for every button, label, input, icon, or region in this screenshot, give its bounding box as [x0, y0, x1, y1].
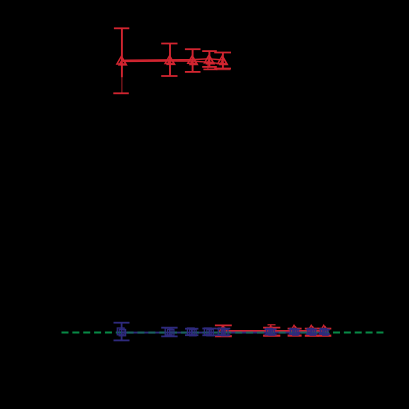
blue errorbar B6 — [270, 329, 272, 334]
blue square marker A7 — [291, 329, 297, 335]
blue series B line — [122, 332, 325, 334]
bottom red series B line — [224, 330, 325, 332]
top red triangle marker A3 — [188, 56, 197, 64]
blue errorbar B8 — [311, 330, 313, 335]
top red triangle marker B4 — [207, 57, 214, 63]
blue square marker B7 — [293, 330, 298, 335]
blue series A line — [121, 331, 324, 333]
top red errorbar C1 lower thin segment — [121, 77, 123, 93]
top red triangle marker B1 — [119, 59, 126, 65]
blue errorbar B7 — [293, 329, 295, 334]
top red triangle marker B2 — [167, 58, 174, 64]
top red triangle marker B3 — [190, 58, 197, 64]
bottom red errorbar R4 — [311, 329, 313, 336]
bottom red triangle marker B5 — [322, 327, 328, 332]
blue errorbar B1 — [121, 323, 123, 341]
blue errorbar B9 — [323, 330, 325, 335]
blue square marker A5 — [218, 328, 225, 335]
bottom red triangle marker B2 — [269, 327, 275, 332]
top red errorbar C4 — [208, 51, 210, 67]
bottom red errorbar R2 upper stub — [270, 325, 272, 328]
blue square marker A2 — [165, 328, 172, 335]
blue square marker B2 — [168, 330, 174, 336]
blue square marker A1 — [117, 328, 124, 335]
blue square marker B1 — [119, 329, 125, 335]
blue errorbar B3 — [191, 329, 193, 336]
blue square marker A3 — [187, 328, 194, 335]
blue errorbar B5 — [222, 329, 224, 336]
top red errorbar C5 — [222, 53, 224, 69]
blue square marker B5 — [222, 329, 228, 335]
green dashed reference line (middle segment blended over blue) — [121, 331, 326, 333]
top red errorbar C1 bottom cap — [113, 92, 129, 94]
blue square marker A9 — [321, 329, 327, 335]
bottom red triangle marker A3 — [291, 325, 298, 331]
top red errorbar C3 — [192, 49, 194, 72]
bottom red triangle marker B4 — [310, 327, 316, 332]
top red errorbar C1 — [121, 28, 123, 77]
top red triangle marker B5 — [220, 58, 227, 64]
green dashed reference line (right pure segment) — [326, 332, 384, 334]
bottom red triangle marker A2 — [267, 326, 274, 332]
top red errorbar C4 second bar — [207, 62, 209, 69]
top red triangle marker A5 — [218, 56, 227, 64]
top red triangle marker A4 — [205, 55, 214, 63]
blue errorbar B2 — [169, 328, 171, 337]
bottom red errorbar R2 small top cap — [268, 324, 276, 326]
bottom red triangle marker A4 — [308, 325, 315, 331]
blue square marker A6 — [267, 328, 273, 334]
bottom red errorbar R5 — [323, 329, 325, 336]
bottom red errorbar R3 — [294, 329, 296, 336]
top red errorbar C5 second bottom cap — [217, 69, 231, 71]
green dashed reference line (left pure segment) — [62, 332, 121, 334]
blue square marker B9 — [323, 330, 328, 335]
bottom red triangle marker B1 — [221, 328, 227, 333]
blue square marker B3 — [190, 329, 196, 335]
bottom red triangle marker B3 — [293, 327, 299, 332]
top red triangle marker A2 — [165, 56, 174, 64]
blue square marker A8 — [308, 329, 314, 335]
bottom red triangle marker A1 — [219, 326, 226, 332]
bottom red triangle marker A5 — [320, 325, 327, 331]
blue square marker B4 — [207, 329, 213, 335]
bottom red errorbar R2 — [270, 328, 272, 336]
top red errorbar C4 second bottom cap — [203, 68, 217, 70]
top red errorbar C1 top cap — [114, 27, 129, 29]
top red series A line — [121, 59, 222, 61]
blue square marker A4 — [204, 328, 211, 335]
top red series B line — [123, 61, 224, 64]
bottom red errorbar R1 — [222, 325, 224, 336]
blue square marker B6 — [269, 330, 274, 335]
blue errorbar B4 — [208, 329, 210, 336]
blue square marker B8 — [310, 330, 315, 335]
top red triangle marker A1 — [117, 56, 126, 64]
top red errorbar C2 — [169, 44, 171, 77]
bottom red series A line — [223, 330, 324, 332]
